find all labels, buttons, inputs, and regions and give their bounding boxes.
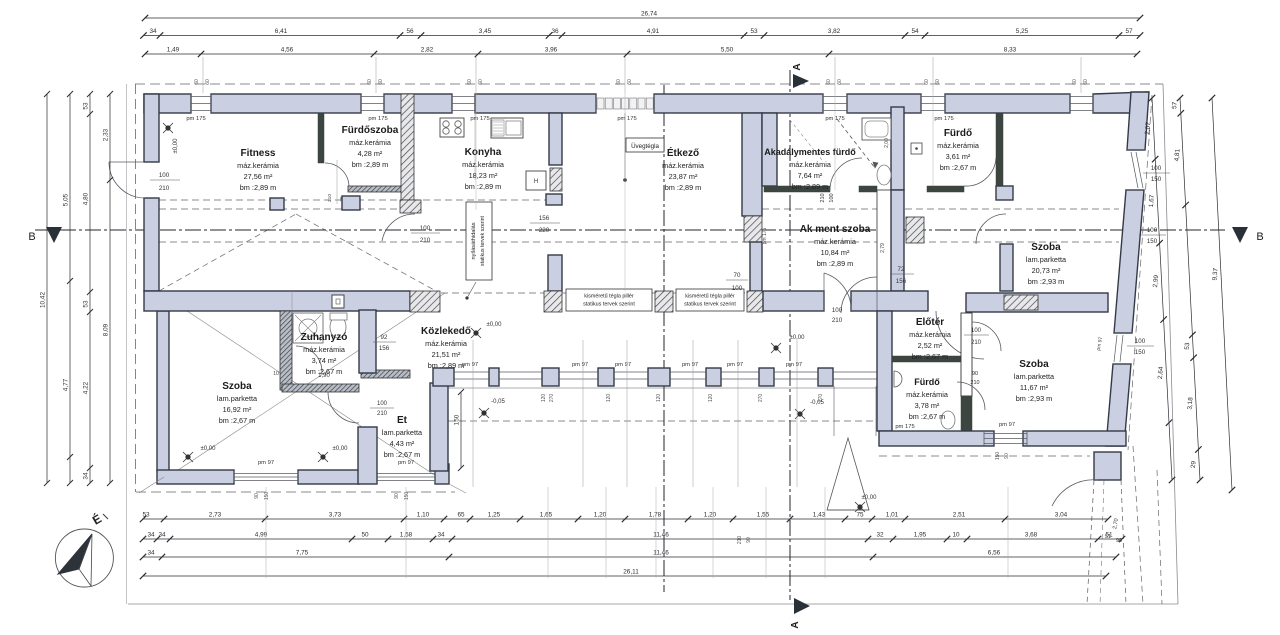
svg-text:bm :2,67 m: bm :2,67 m (219, 416, 256, 425)
svg-text:27,56 m²: 27,56 m² (244, 172, 273, 181)
svg-text:2,51: 2,51 (953, 512, 966, 519)
svg-text:-0,05: -0,05 (491, 399, 505, 405)
svg-text:5,05: 5,05 (63, 193, 70, 206)
svg-text:bm :2,89 m: bm :2,89 m (465, 182, 502, 191)
svg-text:20,73 m²: 20,73 m² (1032, 266, 1061, 275)
svg-text:60: 60 (367, 79, 373, 85)
svg-text:2,33: 2,33 (103, 128, 110, 141)
svg-text:máz.kerámia: máz.kerámia (662, 161, 705, 170)
svg-text:10,84 m²: 10,84 m² (821, 248, 850, 257)
svg-text:56: 56 (406, 28, 414, 35)
svg-text:10: 10 (273, 371, 279, 377)
svg-text:3,78 m²: 3,78 m² (915, 401, 940, 410)
svg-text:65: 65 (457, 512, 465, 519)
svg-text:2,07: 2,07 (1144, 121, 1152, 134)
svg-text:53: 53 (1184, 342, 1192, 350)
svg-text:90: 90 (972, 371, 978, 377)
svg-text:150: 150 (1147, 238, 1158, 245)
svg-text:100: 100 (732, 285, 743, 292)
svg-text:bm :2,67 m: bm :2,67 m (384, 450, 421, 459)
svg-text:60: 60 (935, 79, 941, 85)
svg-text:34: 34 (147, 550, 155, 557)
svg-text:3,73: 3,73 (329, 512, 342, 519)
svg-text:pm 175: pm 175 (368, 116, 387, 122)
svg-text:90: 90 (254, 493, 260, 499)
svg-text:±0,00: ±0,00 (173, 138, 179, 154)
svg-text:2,00: 2,00 (884, 138, 890, 148)
svg-text:156: 156 (379, 345, 390, 352)
svg-text:7,64 m²: 7,64 m² (798, 171, 823, 180)
svg-text:60: 60 (194, 79, 200, 85)
svg-text:Szoba: Szoba (1031, 242, 1061, 253)
svg-text:lam.parketta: lam.parketta (382, 428, 423, 437)
svg-text:Fürdőszoba: Fürdőszoba (342, 125, 399, 136)
svg-text:210: 210 (420, 237, 431, 244)
svg-text:lam.parketta: lam.parketta (1014, 372, 1055, 381)
svg-text:3,68: 3,68 (1025, 532, 1038, 539)
svg-text:210: 210 (327, 194, 333, 202)
svg-text:60: 60 (1083, 79, 1089, 85)
svg-text:1,20: 1,20 (704, 512, 717, 519)
svg-text:Et: Et (397, 415, 408, 426)
svg-text:Előtér: Előtér (916, 317, 944, 328)
svg-text:26,11: 26,11 (623, 569, 639, 576)
svg-text:Szoba: Szoba (1019, 359, 1049, 370)
svg-text:60: 60 (478, 79, 484, 85)
svg-text:±0,00: ±0,00 (487, 322, 503, 328)
svg-text:100: 100 (377, 401, 388, 407)
svg-text:8,33: 8,33 (1004, 47, 1017, 54)
svg-text:máz.kerámia: máz.kerámia (789, 160, 832, 169)
svg-text:B: B (28, 231, 35, 243)
svg-text:3,74 m²: 3,74 m² (312, 356, 337, 365)
svg-text:kisméretű tégla pillér: kisméretű tégla pillér (584, 294, 634, 300)
svg-text:90: 90 (1116, 538, 1122, 544)
svg-text:1,78: 1,78 (649, 512, 662, 519)
svg-text:bm :2,67 m: bm :2,67 m (909, 412, 946, 421)
svg-text:máz.kerámia: máz.kerámia (909, 330, 952, 339)
svg-text:pm 97: pm 97 (727, 362, 743, 368)
svg-text:1,25: 1,25 (488, 512, 501, 519)
svg-text:210: 210 (971, 340, 982, 346)
svg-text:Étkező: Étkező (667, 146, 699, 159)
svg-text:±0,00: ±0,00 (862, 495, 878, 501)
svg-text:3,96: 3,96 (545, 47, 558, 54)
svg-text:5,50: 5,50 (721, 47, 734, 54)
svg-text:lam.parketta: lam.parketta (217, 394, 258, 403)
svg-text:29: 29 (1190, 460, 1198, 468)
svg-text:máz.kerámia: máz.kerámia (303, 345, 346, 354)
svg-text:lam.parketta: lam.parketta (1026, 255, 1067, 264)
svg-text:Üvegtégla: Üvegtégla (631, 143, 659, 150)
svg-text:1,01: 1,01 (886, 512, 899, 519)
svg-text:máz.kerámia: máz.kerámia (349, 138, 392, 147)
svg-text:90: 90 (746, 537, 752, 543)
svg-text:120: 120 (656, 394, 662, 403)
svg-text:57: 57 (1125, 28, 1133, 35)
svg-text:53: 53 (83, 102, 90, 110)
svg-text:Konyha: Konyha (465, 147, 502, 158)
svg-text:60: 60 (627, 79, 633, 85)
svg-text:±0,00: ±0,00 (333, 446, 349, 452)
svg-text:máz.kerámia: máz.kerámia (425, 339, 468, 348)
svg-text:100: 100 (1151, 165, 1162, 172)
svg-text:bm :2,93 m: bm :2,93 m (1016, 394, 1053, 403)
svg-text:150: 150 (404, 492, 410, 501)
svg-text:21,51 m²: 21,51 m² (432, 350, 461, 359)
svg-text:90: 90 (1004, 453, 1010, 459)
svg-text:statikus tervek szerint: statikus tervek szerint (480, 216, 486, 266)
svg-text:72: 72 (898, 266, 905, 273)
svg-text:60: 60 (616, 79, 622, 85)
svg-text:±0,00: ±0,00 (790, 335, 806, 341)
svg-text:16,92 m²: 16,92 m² (223, 405, 252, 414)
svg-text:1,95: 1,95 (914, 532, 927, 539)
svg-text:bm :2,89 m: bm :2,89 m (240, 183, 277, 192)
svg-text:2,82: 2,82 (421, 47, 434, 54)
svg-text:60: 60 (205, 79, 211, 85)
svg-text:pm 97: pm 97 (462, 362, 478, 368)
svg-text:3,61 m²: 3,61 m² (946, 152, 971, 161)
svg-text:Fitness: Fitness (240, 148, 275, 159)
svg-text:1,49: 1,49 (167, 47, 180, 54)
svg-text:8,09: 8,09 (103, 323, 110, 336)
svg-text:9,37: 9,37 (1211, 267, 1219, 280)
svg-text:pm 97: pm 97 (786, 362, 802, 368)
svg-text:11,46: 11,46 (653, 550, 669, 557)
svg-text:máz.kerámia: máz.kerámia (462, 160, 505, 169)
svg-text:34: 34 (158, 532, 166, 539)
svg-text:60: 60 (378, 79, 384, 85)
svg-text:54: 54 (911, 28, 919, 35)
svg-text:4,43 m²: 4,43 m² (390, 439, 415, 448)
svg-text:2,64: 2,64 (1157, 366, 1165, 379)
svg-text:210: 210 (159, 185, 170, 192)
svg-text:34: 34 (149, 28, 157, 35)
svg-text:100: 100 (1147, 227, 1158, 234)
svg-text:pm 175: pm 175 (762, 227, 768, 244)
svg-text:60: 60 (924, 79, 930, 85)
svg-text:4,99: 4,99 (255, 532, 268, 539)
svg-text:6,41: 6,41 (275, 28, 288, 35)
svg-text:2,79: 2,79 (880, 243, 886, 253)
svg-text:3,45: 3,45 (479, 28, 492, 35)
svg-text:18,23 m²: 18,23 m² (469, 171, 498, 180)
svg-text:Fürdő: Fürdő (944, 128, 972, 139)
svg-text:1,67: 1,67 (1148, 194, 1156, 207)
svg-text:100: 100 (829, 193, 835, 202)
svg-text:23,87 m²: 23,87 m² (669, 172, 698, 181)
svg-text:156: 156 (539, 215, 550, 222)
svg-text:120: 120 (708, 394, 714, 403)
svg-text:60: 60 (837, 79, 843, 85)
svg-text:1,10: 1,10 (417, 512, 430, 519)
svg-text:pm 175: pm 175 (470, 116, 489, 122)
svg-text:Közlekedő: Közlekedő (421, 326, 471, 337)
svg-text:51: 51 (1105, 534, 1111, 540)
svg-text:máz.kerámia: máz.kerámia (937, 141, 980, 150)
svg-text:Ak ment szoba: Ak ment szoba (800, 224, 871, 235)
svg-text:210: 210 (970, 380, 979, 386)
svg-text:7,75: 7,75 (296, 550, 309, 557)
svg-text:4,77: 4,77 (63, 378, 70, 391)
svg-text:100: 100 (1135, 338, 1146, 345)
svg-text:máz.kerámia: máz.kerámia (906, 390, 949, 399)
svg-text:53: 53 (750, 28, 758, 35)
svg-text:Szoba: Szoba (222, 381, 252, 392)
svg-text:pm 175: pm 175 (617, 116, 636, 122)
svg-text:100: 100 (832, 307, 843, 314)
svg-text:270: 270 (818, 394, 824, 403)
svg-text:6,56: 6,56 (988, 550, 1001, 557)
svg-text:bm :2,93 m: bm :2,93 m (1028, 277, 1065, 286)
svg-text:75: 75 (856, 512, 864, 519)
svg-text:220: 220 (539, 227, 550, 234)
svg-text:53: 53 (83, 300, 90, 308)
svg-text:53: 53 (142, 512, 150, 519)
svg-text:210: 210 (377, 411, 388, 417)
svg-text:270: 270 (758, 394, 764, 403)
svg-text:5,25: 5,25 (1016, 28, 1029, 35)
svg-text:1,43: 1,43 (813, 512, 826, 519)
svg-text:bm :2,89 m: bm :2,89 m (352, 160, 389, 169)
svg-text:±0,00: ±0,00 (201, 446, 217, 452)
svg-text:bm :2,89 m: bm :2,89 m (428, 361, 465, 370)
svg-text:120: 120 (606, 394, 612, 403)
svg-text:pm 97: pm 97 (398, 460, 414, 466)
svg-text:pm 97: pm 97 (615, 362, 631, 368)
svg-text:90: 90 (394, 493, 400, 499)
svg-text:bm :2,89 m: bm :2,89 m (665, 183, 702, 192)
svg-text:150: 150 (264, 492, 270, 501)
svg-text:1,90: 1,90 (318, 373, 330, 379)
svg-text:Akadálymentes fürdő: Akadálymentes fürdő (764, 147, 856, 157)
svg-text:pm 175: pm 175 (895, 424, 914, 430)
svg-text:3,18: 3,18 (1186, 397, 1194, 410)
svg-text:kisméretű tégla pillér: kisméretű tégla pillér (685, 294, 735, 300)
svg-text:120: 120 (541, 394, 547, 403)
svg-text:11,46: 11,46 (653, 532, 669, 539)
svg-text:60: 60 (467, 79, 473, 85)
svg-text:bm :2,67 m: bm :2,67 m (940, 163, 977, 172)
svg-text:pm 175: pm 175 (934, 116, 953, 122)
svg-text:máz.kerámia: máz.kerámia (237, 161, 280, 170)
svg-text:70: 70 (734, 272, 741, 279)
svg-text:34: 34 (147, 532, 155, 539)
svg-text:pm 97: pm 97 (572, 362, 588, 368)
svg-text:10: 10 (952, 532, 960, 539)
svg-text:100: 100 (420, 225, 431, 232)
svg-text:11,67 m²: 11,67 m² (1020, 383, 1049, 392)
svg-text:1,65: 1,65 (540, 512, 553, 519)
svg-text:10,42: 10,42 (40, 292, 47, 308)
svg-text:156: 156 (896, 278, 907, 285)
svg-text:34: 34 (437, 532, 445, 539)
svg-text:150: 150 (995, 452, 1001, 461)
svg-text:2,99: 2,99 (1152, 274, 1160, 287)
svg-text:bm :2,89 m: bm :2,89 m (792, 182, 829, 191)
svg-text:máz.kerámia: máz.kerámia (814, 237, 857, 246)
svg-text:4,81: 4,81 (1173, 148, 1181, 161)
svg-text:32: 32 (876, 532, 884, 539)
svg-text:1,20: 1,20 (594, 512, 607, 519)
svg-text:Fürdő: Fürdő (914, 377, 940, 387)
svg-text:3,82: 3,82 (828, 28, 841, 35)
svg-text:4,28 m²: 4,28 m² (358, 149, 383, 158)
svg-text:36: 36 (551, 28, 559, 35)
svg-text:A: A (792, 63, 803, 70)
svg-text:H: H (534, 179, 538, 185)
svg-text:100: 100 (159, 172, 170, 179)
svg-text:4,91: 4,91 (647, 28, 660, 35)
svg-text:pm 97: pm 97 (258, 460, 274, 466)
svg-text:150: 150 (454, 414, 461, 425)
svg-text:nyílásáthidalás: nyílásáthidalás (471, 222, 477, 259)
svg-text:A: A (790, 621, 801, 628)
svg-text:pm 97: pm 97 (999, 422, 1015, 428)
svg-text:34: 34 (83, 472, 90, 480)
svg-text:4,56: 4,56 (281, 47, 294, 54)
svg-text:270: 270 (549, 394, 555, 403)
svg-text:3,04: 3,04 (1055, 512, 1068, 519)
svg-text:150: 150 (1135, 349, 1146, 356)
svg-text:92: 92 (381, 334, 388, 341)
svg-text:100: 100 (971, 328, 982, 334)
svg-text:bm :2,67 m: bm :2,67 m (912, 352, 949, 361)
svg-text:bm :2,89 m: bm :2,89 m (817, 259, 854, 268)
svg-text:210: 210 (737, 536, 743, 545)
svg-text:1,55: 1,55 (757, 512, 770, 519)
svg-text:4,22: 4,22 (83, 381, 90, 394)
svg-text:2,73: 2,73 (209, 512, 222, 519)
svg-text:60: 60 (826, 79, 832, 85)
svg-text:4,80: 4,80 (83, 192, 90, 205)
svg-text:26,74: 26,74 (641, 11, 657, 18)
svg-text:B: B (1256, 231, 1263, 243)
svg-text:statikus tervek szerint: statikus tervek szerint (684, 302, 736, 308)
svg-text:60: 60 (1072, 79, 1078, 85)
svg-text:210: 210 (832, 317, 843, 324)
svg-text:pm 97: pm 97 (682, 362, 698, 368)
svg-text:210: 210 (820, 193, 826, 202)
svg-text:50: 50 (361, 532, 369, 539)
svg-text:statikus tervek szerint: statikus tervek szerint (583, 302, 635, 308)
svg-text:57: 57 (1171, 101, 1179, 109)
svg-text:pm 175: pm 175 (186, 116, 205, 122)
svg-text:Zuhanyzó: Zuhanyzó (301, 332, 348, 343)
svg-text:2,52 m²: 2,52 m² (918, 341, 943, 350)
